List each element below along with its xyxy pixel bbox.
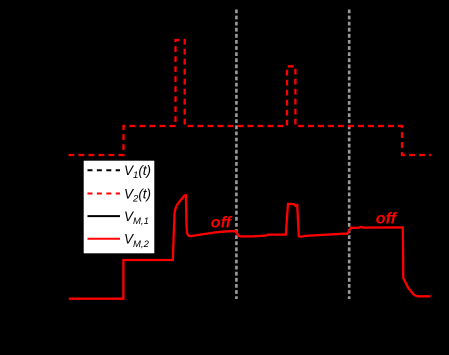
gray dashed vertical line 1 (switching instant) <box>235 10 238 300</box>
curve V2(t) red dashed <box>69 40 432 155</box>
svg-text:off: off <box>376 210 398 227</box>
legend sample line V2(t) red dashed <box>88 193 121 195</box>
legend sample line VM,2 red solid <box>88 238 121 240</box>
legend sample line VM,1 black solid <box>88 215 121 217</box>
svg-text:off: off <box>211 214 233 231</box>
legend box <box>84 161 155 254</box>
legend sample line V1(t) black dashed <box>88 169 121 171</box>
curve VM,2 red solid <box>69 195 431 298</box>
gray dashed vertical line 2 (switching instant) <box>348 10 351 300</box>
